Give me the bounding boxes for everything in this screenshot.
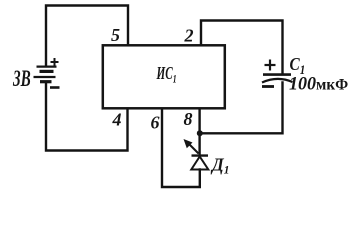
wire: IC pin 2 up, top rail, down to capacitor + — [201, 21, 283, 74]
LED D1 arrow — [184, 139, 199, 154]
junction node at pin8/capacitor wire — [197, 130, 203, 136]
capacitor C1 — [262, 75, 293, 83]
svg-text:4: 4 — [112, 109, 122, 129]
battery value label 3В — [12, 67, 30, 92]
wire: battery - down, bottom rail, up to IC pin 4 — [46, 84, 128, 151]
IC label ИС1 — [156, 65, 177, 86]
capacitor top plate (+) — [263, 73, 291, 76]
capacitor bottom curved plate (-) — [262, 79, 293, 83]
battery plate long thin (cell 2 +) — [34, 76, 56, 78]
capacitor ref label C1 — [290, 54, 306, 77]
svg-text:3В: 3В — [12, 67, 30, 92]
wire: IC pin 8 down through junction to diode cathode — [198, 109, 200, 155]
svg-text:Д1: Д1 — [210, 154, 229, 176]
battery plate short thick (cell 2 -) — [40, 80, 52, 83]
wire: battery + up, top rail, down to IC pin 5 — [46, 6, 128, 66]
svg-text:6: 6 — [151, 112, 160, 132]
wire: diode anode down, bottom rail, up to IC pin 6 — [162, 109, 200, 187]
svg-text:100мкФ: 100мкФ — [289, 73, 348, 95]
svg-text:8: 8 — [184, 109, 193, 129]
battery plate short thick (cell 1 -) — [40, 70, 54, 73]
diode ref label Д1 — [210, 154, 229, 176]
battery plus sign — [51, 58, 59, 66]
capacitor value label 100мкФ — [289, 73, 348, 95]
battery minus sign — [50, 86, 60, 89]
svg-text:2: 2 — [184, 26, 194, 46]
LED D1 triangle (anode, pointing up) — [191, 157, 208, 170]
capacitor plus sign — [265, 60, 276, 71]
svg-text:5: 5 — [111, 25, 120, 45]
svg-text:ИС1: ИС1 — [156, 65, 177, 86]
capacitor minus sign — [262, 85, 274, 88]
battery GB1 (3V) — [34, 67, 57, 82]
LED D1 (Д1) cathode bar — [192, 154, 209, 156]
IC U1 box — [103, 45, 225, 108]
battery plate long thin (cell 1 +) — [37, 65, 57, 67]
wire: capacitor - down, left to junction node — [200, 83, 283, 134]
